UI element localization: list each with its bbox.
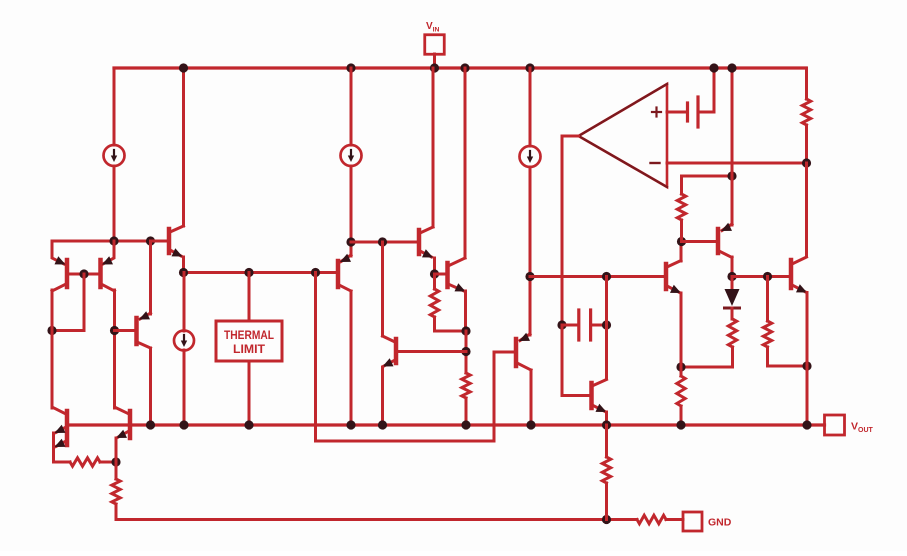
transistor Q1 bar	[65, 260, 70, 287]
wire R8 top segment	[682, 175, 733, 178]
wire base tap drop	[83, 274, 86, 331]
wire Q5 collector down	[350, 291, 353, 425]
transistor QA emitter 1	[56, 427, 66, 433]
node cap left	[557, 320, 566, 329]
wire Q10 collector up	[680, 242, 683, 262]
svg-text:THERMAL: THERMAL	[224, 330, 274, 342]
op-amp U1 minus sign	[651, 162, 660, 164]
op-amp U1 bottom edge dark	[579, 136, 668, 187]
node top rail J-Q11	[727, 63, 736, 72]
battery reference long plate	[696, 97, 699, 127]
transistor Q4 bar	[167, 229, 172, 253]
node VIN junction	[430, 63, 439, 72]
transistor Q10 bar	[664, 264, 669, 289]
transistor Q1 emitter	[52, 241, 64, 264]
wire Q11 emitter up	[731, 68, 734, 225]
node rail J-R3	[461, 420, 470, 429]
transistor QB bar	[128, 411, 133, 438]
wire QA emitter join	[54, 433, 71, 462]
transistor Q7 bar	[394, 339, 399, 363]
node y242 J1	[346, 237, 355, 246]
wire Q8 emitter down	[464, 291, 467, 331]
transistor Q11 bar	[716, 229, 721, 253]
wire drop to I2	[350, 68, 353, 145]
wire Q12 emitter down	[806, 293, 809, 426]
transistor Q1 collector	[52, 284, 66, 291]
transistor Q13 emitter arrow	[596, 404, 607, 412]
transistor Q3 bar	[134, 318, 139, 344]
wire bias line	[184, 271, 337, 274]
wire y242 segment	[351, 241, 417, 244]
wire thermal top	[248, 273, 251, 322]
terminal VIN square	[425, 35, 445, 55]
op-amp U1 plus sign	[652, 111, 661, 113]
wire QB emitter down	[115, 438, 118, 462]
transistor Q9 emitter arrow	[519, 333, 530, 341]
wire R2 top lead	[433, 274, 436, 289]
wire I1 to mirror rail	[113, 166, 116, 241]
node R2-Q8 node	[461, 326, 470, 335]
svg-text:LIMIT: LIMIT	[233, 344, 265, 356]
wire bias to lower bus drop	[314, 273, 317, 442]
wire plus input	[667, 111, 685, 114]
wire Q7 collector up	[381, 242, 384, 336]
transistor Q4 emitter	[170, 250, 181, 256]
transistor Q11 emitter	[722, 224, 732, 231]
node rail J-Q13e	[602, 420, 611, 429]
wire I4 drop lower	[183, 350, 186, 425]
transistor Q8 collector	[448, 258, 465, 266]
node bias J2	[244, 268, 253, 277]
node error line J1	[602, 272, 611, 281]
transistor Q7 emitter	[384, 360, 395, 366]
resistor R10	[763, 321, 771, 347]
node top rail J-I2	[346, 63, 355, 72]
resistor R9	[802, 99, 810, 125]
transistor Q6 emitter arrow	[422, 249, 433, 257]
transistor Q4 emitter arrow	[172, 248, 183, 256]
diode D1 triangle	[725, 289, 740, 306]
node x732 J-top	[727, 171, 736, 180]
resistor R15	[602, 457, 610, 483]
node left collector tie	[47, 326, 56, 335]
terminal VOUT square	[825, 415, 845, 435]
wire Q4 collector up	[182, 68, 185, 226]
node top rail J-I3	[525, 63, 534, 72]
resistor R13	[70, 458, 100, 466]
wire error line	[530, 275, 664, 278]
node Q3 base node	[110, 326, 119, 335]
wire top rail right bend	[805, 68, 808, 99]
node mirror base tap	[79, 269, 88, 278]
transistor Q5 bar	[336, 261, 341, 287]
node Q12 emitter node	[802, 361, 811, 370]
current source I4	[174, 331, 194, 351]
node rail J-Q9c	[526, 420, 535, 429]
wire R10 bottom lead	[768, 347, 808, 366]
wire left collector drop	[51, 290, 54, 408]
node ground J1	[602, 515, 611, 524]
transistor Q3 emitter arrow	[139, 311, 150, 319]
node top rail J-batt	[709, 63, 718, 72]
node bias J1	[179, 268, 188, 277]
wire R12 bottom lead	[680, 406, 683, 425]
transistor Q10 collector	[667, 261, 681, 268]
transistor Q12 emitter	[792, 285, 806, 292]
wire x466 mid	[465, 331, 468, 373]
transistor Q3 base wire	[115, 329, 135, 332]
transistor Q10 emitter arrow	[670, 285, 681, 293]
resistor R2	[430, 289, 438, 317]
transistor Q9 base wire	[494, 351, 514, 354]
node rail J-R12	[676, 420, 685, 429]
transistor Q4 collector	[170, 226, 184, 232]
wire ground drop top lead	[605, 425, 608, 457]
wire right collector drop	[113, 290, 116, 408]
node R10 top node	[763, 272, 772, 281]
node Q10 emitter node	[676, 362, 685, 371]
wire minus input	[667, 162, 807, 165]
wire Q13 emitter down	[605, 412, 608, 425]
transistor QA collector	[53, 408, 66, 415]
transistor Q6 emitter	[420, 251, 432, 257]
transistor QB emitter	[118, 431, 130, 438]
transistor QA emitter 2	[56, 441, 66, 447]
transistor Q5 emitter	[341, 255, 351, 262]
box THERMAL LIMIT	[216, 321, 282, 361]
wire R8 top lead	[680, 176, 683, 194]
resistor R14	[112, 479, 120, 504]
transistor QA bar	[65, 411, 70, 445]
transistor Q11 collector	[719, 251, 732, 258]
resistor R8	[677, 194, 685, 220]
wire R16 to GND	[666, 518, 683, 521]
node rail J-thermal	[244, 420, 253, 429]
node top rail J-Q4	[179, 63, 188, 72]
transistor Q11 emitter arrow	[721, 223, 732, 231]
wire R13 right lead	[100, 461, 116, 464]
transistor Q7 collector	[383, 336, 396, 342]
node cap right	[602, 320, 611, 329]
wire battery to rail	[698, 68, 714, 112]
node minus node	[802, 158, 811, 167]
node top rail J3	[460, 63, 469, 72]
transistor Q1 emitter arrow	[55, 256, 66, 264]
node rail J-Q12e	[802, 420, 811, 429]
node rail J-Q3c	[146, 420, 155, 429]
transistor Q6 collector	[420, 227, 433, 233]
wire R14 to ground rail	[116, 504, 637, 520]
wire R14 top lead	[115, 462, 118, 479]
wire Q9 collector down	[530, 370, 533, 425]
wire drop to I3	[529, 68, 532, 146]
transistor Q12 collector	[792, 257, 807, 264]
resistor R12	[677, 376, 685, 406]
wire I4 drop upper	[183, 273, 186, 332]
op-amp U1 top edge dark	[579, 84, 668, 136]
transistor Q9 bar	[514, 339, 519, 366]
resistor R3	[462, 373, 470, 398]
wire Q8 collector up	[464, 68, 467, 258]
wire mirror emitter rail	[52, 240, 167, 243]
wire R2 bottom lead	[435, 317, 467, 331]
transistor Q5 emitter arrow	[340, 254, 351, 262]
transistor Q8 base wire	[435, 273, 446, 276]
transistor QA emitter 1 arrow	[55, 425, 66, 433]
transistor Q8 emitter	[448, 284, 464, 291]
wire Q3 emitter up	[149, 241, 152, 314]
transistor Q12 emitter arrow	[796, 284, 807, 292]
node Q6 emitter node	[430, 269, 439, 278]
wire diode cathode lead	[731, 308, 734, 319]
resistor R16	[637, 515, 666, 523]
transistor Q3 collector	[137, 342, 151, 348]
node y242 J2	[378, 237, 387, 246]
wire R8 bottom lead	[680, 220, 683, 242]
svg-text:GND: GND	[708, 517, 732, 529]
wire left drop to I1	[113, 68, 116, 145]
node rail J-I4	[179, 420, 188, 429]
node R8 bottom node	[677, 237, 686, 246]
wire mirror base join	[67, 273, 101, 276]
wire minus node down	[805, 163, 808, 256]
transistor Q13 collector	[592, 380, 607, 387]
transistor Q12 bar	[789, 260, 794, 288]
wire lower bus	[316, 440, 495, 443]
wire top supply rail	[114, 66, 806, 69]
current source I3	[520, 146, 541, 167]
wire R3 bottom lead	[465, 398, 468, 425]
wire R11 bottom lead	[681, 347, 733, 367]
transistor Q2 bar	[98, 260, 103, 287]
wire Q13 base drop	[562, 325, 589, 396]
wire R8 bottom segment	[682, 240, 716, 243]
transistor QB collector	[116, 408, 130, 415]
terminal GND square	[683, 512, 702, 531]
wire thermal bottom	[248, 361, 251, 425]
wire Q11 collector down	[731, 257, 734, 277]
wire lower bus riser	[493, 352, 496, 441]
transistor Q13 emitter	[592, 405, 605, 412]
wire R15 bottom lead	[605, 483, 608, 520]
current source I2	[341, 145, 362, 166]
wire Q4 emitter down	[182, 257, 185, 273]
transistor Q2 emitter arrow	[102, 256, 113, 264]
wire Q3 collector down	[149, 348, 152, 425]
node mirror rail J2	[146, 236, 155, 245]
wire VIN drop	[432, 68, 435, 227]
transistor QB emitter arrow	[116, 430, 127, 438]
node Q7 base node	[461, 347, 470, 356]
transistor Q13 bar	[589, 383, 594, 408]
capacitor C1 left plate	[577, 310, 580, 340]
wire output rail	[67, 423, 825, 426]
wire Q7 emitter down	[381, 367, 384, 425]
wire op-amp output	[562, 136, 579, 325]
transistor QA emitter 2 arrow	[55, 439, 66, 447]
op-amp U1 body	[579, 84, 668, 187]
transistor Q8 emitter arrow	[455, 283, 466, 291]
wire R10 top lead	[766, 277, 769, 322]
current source I1	[104, 145, 125, 166]
wire error seg right	[732, 275, 789, 278]
capacitor C1 right plate	[589, 310, 592, 340]
transistor Q9 emitter	[520, 334, 530, 341]
transistor Q6 bar	[417, 230, 422, 254]
node rail J-Q7e	[378, 420, 387, 429]
transistor Q10 emitter	[667, 286, 680, 293]
wire Q10 emitter segment	[680, 293, 683, 376]
transistor Q7 emitter arrow	[383, 358, 394, 366]
transistor Q2 emitter	[103, 241, 114, 264]
wire cap left lead	[562, 324, 577, 327]
node rail J-Q5c	[346, 420, 355, 429]
node diode top node	[727, 272, 736, 281]
node R13 node	[111, 457, 120, 466]
transistor Q7 base wire	[399, 350, 467, 353]
wire error drop x606	[605, 277, 608, 380]
node bias J3	[311, 268, 320, 277]
wire cap right lead	[591, 324, 607, 327]
wire base tap to left collector	[52, 329, 84, 332]
wire I2 down	[350, 166, 353, 256]
transistor Q3 emitter	[140, 313, 151, 319]
transistor Q8 bar	[445, 263, 450, 287]
transistor Q4 base wire	[151, 240, 167, 243]
diode D1 cathode bar	[725, 307, 740, 310]
node error line J0	[525, 272, 534, 281]
battery reference short plate	[686, 103, 689, 121]
wire R9 bottom	[805, 125, 808, 163]
resistor R11	[728, 319, 736, 347]
wire I3 down	[529, 167, 532, 335]
node mirror rail J1	[109, 236, 118, 245]
transistor Q9 collector	[517, 363, 531, 370]
wire Q6 emitter down	[433, 258, 436, 274]
transistor Q2 collector	[101, 284, 115, 291]
wire VIN stem	[433, 54, 436, 68]
transistor Q5 collector	[339, 285, 351, 291]
wire diode anode lead	[731, 277, 734, 290]
